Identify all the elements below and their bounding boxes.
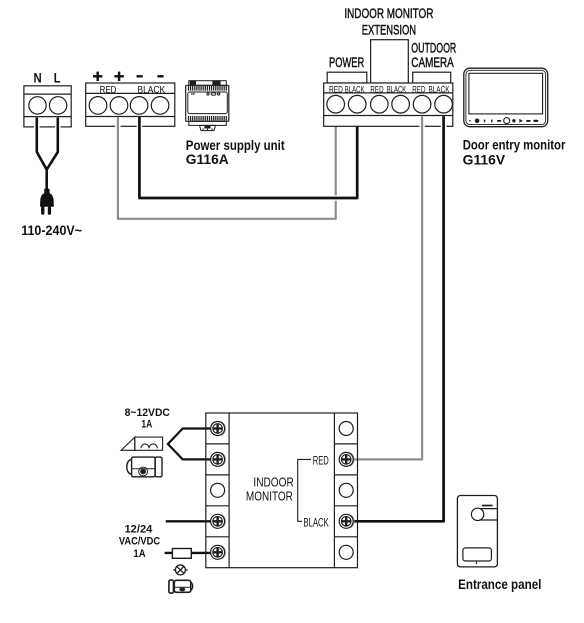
svg-text:INDOOR: INDOOR [253,474,293,489]
svg-text:RED: RED [313,453,329,467]
INDOOR MONITOR EXTENSION riser [371,40,409,83]
svg-text:BLACK: BLACK [428,84,449,94]
svg-text:RED: RED [412,84,426,94]
wire black: PSU - to monitor POWER BLACK [139,116,357,198]
wire red: camera RED to indoor monitor RED [353,116,422,459]
indoor monitor box [206,413,358,568]
power supply unit G116A (DIN module) [186,81,229,131]
plug (mains) [40,189,54,207]
svg-text:BLACK: BLACK [303,516,328,530]
lamp symbol [173,565,187,575]
svg-text:G116A: G116A [186,152,229,167]
svg-text:8~12VDC: 8~12VDC [125,407,170,419]
terminal block power supply output [86,83,175,126]
svg-text:BLACK: BLACK [387,84,407,94]
polarity marks + + - - [93,72,164,81]
pin labels RED/BLACK strip [329,84,450,94]
wire red: PSU + to monitor POWER RED [118,116,336,219]
svg-text:BLACK: BLACK [345,84,365,94]
svg-text:N: N [34,69,42,85]
door lock icon [169,580,193,593]
svg-text:CAMERA: CAMERA [411,54,454,70]
svg-text:Door entry monitor: Door entry monitor [463,138,566,153]
svg-text:VAC/VDC: VAC/VDC [119,536,160,548]
svg-text:12/24: 12/24 [125,524,154,536]
svg-text:BLACK: BLACK [137,85,165,96]
entrance panel [457,496,497,567]
door entry monitor G116V [464,68,548,127]
svg-text:POWER: POWER [329,54,364,70]
svg-text:L: L [54,69,61,85]
svg-text:1A: 1A [141,419,152,431]
wire L branch [47,117,58,169]
terminal strip door entry monitor [324,83,453,126]
svg-text:MONITOR: MONITOR [246,489,293,504]
svg-text:G116V: G116V [463,153,505,168]
svg-text:RED: RED [370,84,384,94]
wire black: camera BLACK to indoor monitor BLACK [353,116,443,521]
svg-text:110-240V~: 110-240V~ [21,222,82,238]
POWER tab [327,72,367,83]
svg-text:1A: 1A [133,548,145,560]
svg-text:RED: RED [329,84,343,94]
bracket RED/BLACK [298,459,311,521]
svg-text:Entrance panel: Entrance panel [458,577,541,592]
monitor buttons [469,118,538,124]
wires 8~12VDC V-split to terminals 1,2 [168,429,211,460]
fuse [172,549,191,559]
svg-text:RED: RED [100,85,117,96]
wire fused to terminal 5 [165,550,211,556]
svg-text:Power supply unit: Power supply unit [186,138,285,153]
wire N/L to plug [37,117,47,190]
adaptor device icon [127,457,162,477]
svg-text:INDOOR MONITOR: INDOOR MONITOR [344,6,433,21]
terminals right column [339,422,354,560]
terminal block N/L (mains input) [24,86,71,127]
wire 12/24 to terminal 4 [166,518,211,524]
transformer symbol [121,437,163,450]
OUTDOOR CAMERA tab [413,72,451,83]
screw terminals left column [211,422,226,560]
svg-text:EXTENSION: EXTENSION [362,23,416,38]
